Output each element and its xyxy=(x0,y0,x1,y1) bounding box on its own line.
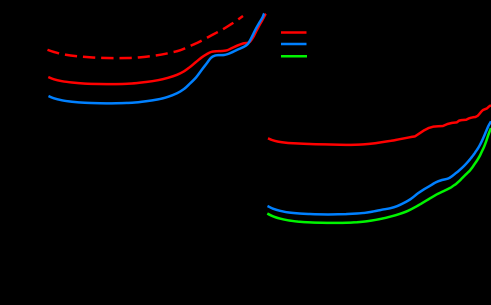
right panel blue curve xyxy=(268,121,491,214)
right panel green curve xyxy=(267,128,491,223)
legend green line xyxy=(281,55,307,58)
left panel blue curve xyxy=(49,14,265,104)
legend blue line xyxy=(281,43,307,46)
legend red line xyxy=(281,31,307,34)
left panel solid red curve xyxy=(48,14,266,84)
left panel dashed red curve xyxy=(48,16,244,58)
right panel red curve xyxy=(268,105,491,145)
